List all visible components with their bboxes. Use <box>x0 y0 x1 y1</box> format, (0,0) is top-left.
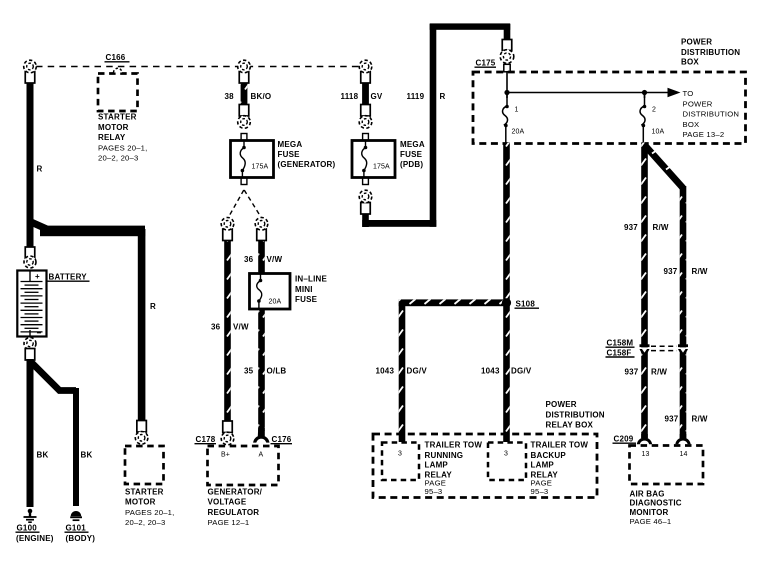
in-line mini fuse 20A <box>250 274 328 310</box>
svg-text:BATTERY: BATTERY <box>49 273 88 282</box>
svg-text:175A: 175A <box>252 164 269 171</box>
mega fuse (generator) 175A <box>231 134 336 185</box>
eyelet terminal starter motor <box>135 421 148 445</box>
connector C178 label <box>195 435 217 444</box>
svg-text:1118: 1118 <box>341 92 359 101</box>
svg-text:20A: 20A <box>512 129 525 136</box>
connector C176 fork terminal <box>253 428 292 444</box>
svg-text:BOX: BOX <box>683 120 700 129</box>
svg-text:3: 3 <box>504 451 508 458</box>
svg-text:2: 2 <box>652 107 656 114</box>
svg-text:(BODY): (BODY) <box>66 534 96 543</box>
svg-text:MINI: MINI <box>295 285 313 294</box>
power distribution box (dashed) <box>473 38 746 144</box>
svg-text:FUSE: FUSE <box>278 150 301 159</box>
svg-text:C178: C178 <box>196 435 216 444</box>
svg-text:O/LB: O/LB <box>267 367 287 376</box>
air bag diagnostic monitor (dashed box) <box>630 446 704 527</box>
internal bus line with junctions and arrow to page 13-2 <box>504 71 739 139</box>
svg-text:R: R <box>440 92 446 101</box>
svg-text:BOX: BOX <box>681 58 699 67</box>
svg-text:G100: G100 <box>17 524 38 533</box>
svg-text:DISTRIBUTION: DISTRIBUTION <box>681 48 740 57</box>
mega fuse (PDB) 175A <box>352 134 425 185</box>
wire 36 V/W generator B+ <box>211 240 249 424</box>
connector C158M / C158F in-line <box>606 339 689 358</box>
svg-text:(GENERATOR): (GENERATOR) <box>278 160 336 169</box>
svg-text:PAGES 20–1,: PAGES 20–1, <box>98 143 148 152</box>
svg-text:PAGE: PAGE <box>425 478 447 487</box>
svg-text:95–3: 95–3 <box>425 487 443 496</box>
svg-text:(PDB): (PDB) <box>400 160 423 169</box>
svg-text:BK: BK <box>81 451 93 460</box>
eyelet terminal 36 V/W bottom (C178) <box>221 421 234 445</box>
eyelet terminal wire 38 bottom <box>238 105 251 129</box>
svg-text:C158F: C158F <box>607 348 632 357</box>
svg-text:PAGE 12–1: PAGE 12–1 <box>208 518 250 527</box>
wire 1118 GV fusible link <box>341 82 383 106</box>
wire BK battery negative to G100 <box>27 359 49 507</box>
wire 35 O/LB mini fuse to generator A <box>244 309 286 431</box>
svg-text:STARTER: STARTER <box>125 487 164 496</box>
svg-text:G101: G101 <box>66 524 87 533</box>
wire 937 R/W pair from fuse 2 <box>624 143 708 439</box>
svg-text:PAGE: PAGE <box>531 478 553 487</box>
svg-text:95–3: 95–3 <box>531 487 549 496</box>
svg-text:DISTRIBUTION: DISTRIBUTION <box>546 410 605 419</box>
svg-text:20A: 20A <box>269 299 282 306</box>
svg-text:A: A <box>259 452 264 459</box>
generator / voltage regulator (dashed box, pins B+ and A) <box>208 446 279 527</box>
svg-text:937: 937 <box>625 368 639 377</box>
svg-text:13: 13 <box>642 451 650 458</box>
svg-text:36: 36 <box>244 255 254 264</box>
eyelet terminal wire 1118 top <box>359 60 372 83</box>
svg-text:TRAILER TOW: TRAILER TOW <box>425 441 483 450</box>
trailer tow backup lamp relay (dashed box, pin 3) <box>488 441 588 497</box>
svg-text:BACKUP: BACKUP <box>531 451 567 460</box>
svg-text:35: 35 <box>244 367 254 376</box>
svg-text:DIAGNOSTIC: DIAGNOSTIC <box>630 499 682 508</box>
wire BK branch to G101 <box>31 362 92 506</box>
node C166 dashed interconnect line <box>36 53 360 67</box>
svg-text:V/W: V/W <box>233 323 249 332</box>
fuse 2 10A <box>640 93 664 144</box>
svg-text:FUSE: FUSE <box>400 150 423 159</box>
fuse 1 20A <box>503 93 525 144</box>
svg-text:RELAY: RELAY <box>98 133 126 142</box>
wire R battery positive, main vertical <box>27 80 43 248</box>
svg-text:FUSE: FUSE <box>295 295 318 304</box>
wire R branch to starter motor <box>31 222 156 424</box>
svg-text:(ENGINE): (ENGINE) <box>16 534 54 543</box>
svg-text:R: R <box>37 165 43 174</box>
svg-text:1119: 1119 <box>407 92 425 101</box>
wire 36 V/W to in-line mini fuse <box>244 240 282 274</box>
connector C175 bolt-in terminal <box>475 40 514 72</box>
svg-text:R/W: R/W <box>692 415 708 424</box>
trailer tow running lamp relay (dashed box, pin 3) <box>382 441 482 497</box>
svg-text:BK/O: BK/O <box>251 92 272 101</box>
ground G101 (body) <box>65 511 96 543</box>
svg-text:B+: B+ <box>221 452 230 459</box>
svg-text:POWER: POWER <box>681 38 712 47</box>
svg-text:937: 937 <box>624 223 638 232</box>
svg-text:BK: BK <box>37 451 49 460</box>
svg-text:RUNNING: RUNNING <box>425 451 464 460</box>
svg-text:36: 36 <box>211 323 221 332</box>
eyelet terminal wire 38 top <box>238 60 251 83</box>
svg-text:POWER: POWER <box>546 400 577 409</box>
svg-text:VOLTAGE: VOLTAGE <box>208 498 247 507</box>
svg-text:IN–LINE: IN–LINE <box>295 275 328 284</box>
eyelet terminal 36 V/W right top <box>255 218 268 241</box>
svg-text:−: − <box>37 329 42 338</box>
svg-text:MEGA: MEGA <box>400 140 425 149</box>
svg-text:V/W: V/W <box>267 255 283 264</box>
svg-text:TRAILER TOW: TRAILER TOW <box>531 441 589 450</box>
svg-text:LAMP: LAMP <box>425 461 449 470</box>
ground G100 (engine) <box>16 509 54 543</box>
svg-text:1043: 1043 <box>481 367 500 376</box>
svg-text:MOTOR: MOTOR <box>98 123 129 132</box>
eyelet terminal 36 V/W top <box>221 218 234 241</box>
eyelet terminal PDB fuse output <box>359 190 372 214</box>
svg-text:38: 38 <box>225 92 235 101</box>
svg-text:PAGES 20–1,: PAGES 20–1, <box>125 508 175 517</box>
splice S108 <box>502 298 539 308</box>
wire 38 BK/O fusible link <box>225 82 272 106</box>
svg-text:14: 14 <box>680 451 688 458</box>
svg-text:STARTER: STARTER <box>98 113 137 122</box>
svg-text:MONITOR: MONITOR <box>630 508 669 517</box>
svg-text:1: 1 <box>515 107 519 114</box>
svg-text:175A: 175A <box>373 164 390 171</box>
svg-text:937: 937 <box>664 267 678 276</box>
svg-text:PAGE 46–1: PAGE 46–1 <box>630 517 672 526</box>
svg-text:REGULATOR: REGULATOR <box>208 508 260 517</box>
dashed split to generator wires <box>228 190 262 218</box>
svg-text:C166: C166 <box>106 53 126 62</box>
battery <box>17 247 89 360</box>
eyelet terminal at C166, battery wire <box>24 60 37 83</box>
svg-text:TO: TO <box>683 89 694 98</box>
svg-text:LAMP: LAMP <box>531 461 555 470</box>
svg-text:DISTRIBUTION: DISTRIBUTION <box>683 110 740 119</box>
connector C209 terminals <box>613 434 691 444</box>
svg-text:POWER: POWER <box>683 99 713 108</box>
svg-text:3: 3 <box>398 451 402 458</box>
svg-text:MOTOR: MOTOR <box>125 498 156 507</box>
svg-text:R: R <box>150 302 156 311</box>
svg-text:AIR BAG: AIR BAG <box>630 489 665 498</box>
svg-text:GV: GV <box>371 92 383 101</box>
svg-text:R/W: R/W <box>692 267 708 276</box>
eyelet terminal wire 1118 bottom <box>359 105 372 129</box>
wire R 1119 from PDB mega fuse to power distribution box <box>362 23 510 227</box>
svg-text:20–2, 20–3: 20–2, 20–3 <box>98 154 138 163</box>
svg-text:+: + <box>35 272 40 281</box>
svg-text:C158M: C158M <box>607 339 634 348</box>
svg-text:C209: C209 <box>614 435 634 444</box>
svg-text:C176: C176 <box>272 435 292 444</box>
wire 1043 DG/V from fuse 1 to splice S108 and relays <box>376 143 532 443</box>
svg-text:DG/V: DG/V <box>511 367 532 376</box>
svg-text:C175: C175 <box>476 59 496 68</box>
svg-text:937: 937 <box>665 415 679 424</box>
svg-text:RELAY BOX: RELAY BOX <box>546 421 594 430</box>
svg-text:GENERATOR/: GENERATOR/ <box>208 487 263 496</box>
svg-text:PAGE 13–2: PAGE 13–2 <box>683 130 725 139</box>
svg-text:20–2, 20–3: 20–2, 20–3 <box>125 518 165 527</box>
starter motor relay (dashed box) <box>98 68 148 162</box>
svg-text:MEGA: MEGA <box>278 140 303 149</box>
svg-text:DG/V: DG/V <box>407 367 428 376</box>
svg-text:1043: 1043 <box>376 367 395 376</box>
svg-text:R/W: R/W <box>651 368 667 377</box>
svg-text:R/W: R/W <box>653 223 669 232</box>
svg-text:10A: 10A <box>652 129 665 136</box>
svg-text:S108: S108 <box>516 300 536 309</box>
power distribution relay box (dashed) <box>373 400 605 498</box>
starter motor (dashed box) <box>125 446 175 527</box>
